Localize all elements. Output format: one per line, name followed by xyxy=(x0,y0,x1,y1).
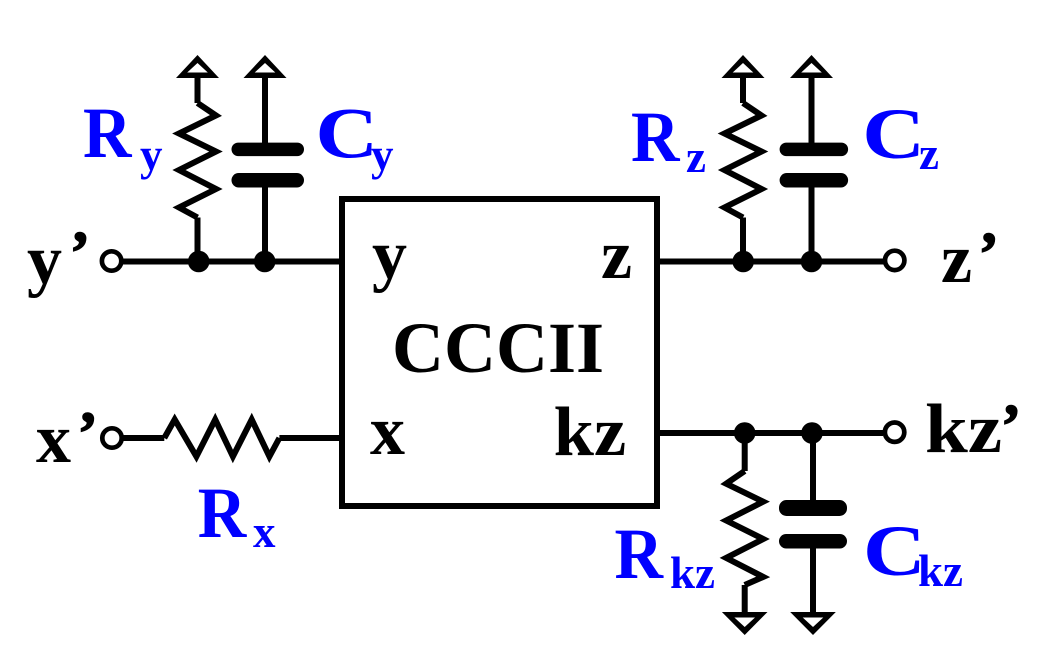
svg-text:y: y xyxy=(372,217,407,294)
svg-text:x: x xyxy=(253,507,276,557)
svg-text:C: C xyxy=(862,94,925,174)
svg-text:kz: kz xyxy=(918,546,963,596)
svg-text:C: C xyxy=(315,94,378,174)
svg-text:’: ’ xyxy=(1001,392,1021,458)
svg-text:R: R xyxy=(631,97,680,177)
svg-text:y: y xyxy=(371,130,394,180)
svg-text:R: R xyxy=(198,473,247,553)
svg-text:x: x xyxy=(36,401,71,478)
svg-text:z: z xyxy=(601,217,632,294)
svg-text:z: z xyxy=(686,132,706,182)
svg-text:’: ’ xyxy=(979,220,999,286)
svg-text:x: x xyxy=(370,393,405,470)
svg-text:’: ’ xyxy=(70,219,90,285)
svg-text:R: R xyxy=(615,514,664,594)
svg-text:R: R xyxy=(83,93,132,173)
svg-text:kz: kz xyxy=(554,394,627,471)
svg-text:z: z xyxy=(919,129,939,179)
svg-text:y: y xyxy=(140,130,163,180)
svg-text:z: z xyxy=(941,221,972,298)
svg-text:y: y xyxy=(27,222,62,299)
svg-text:CCCII: CCCII xyxy=(392,308,604,388)
svg-text:C: C xyxy=(863,511,926,591)
svg-text:kz: kz xyxy=(670,548,715,598)
svg-text:kz: kz xyxy=(925,391,1002,468)
svg-text:’: ’ xyxy=(78,400,98,466)
